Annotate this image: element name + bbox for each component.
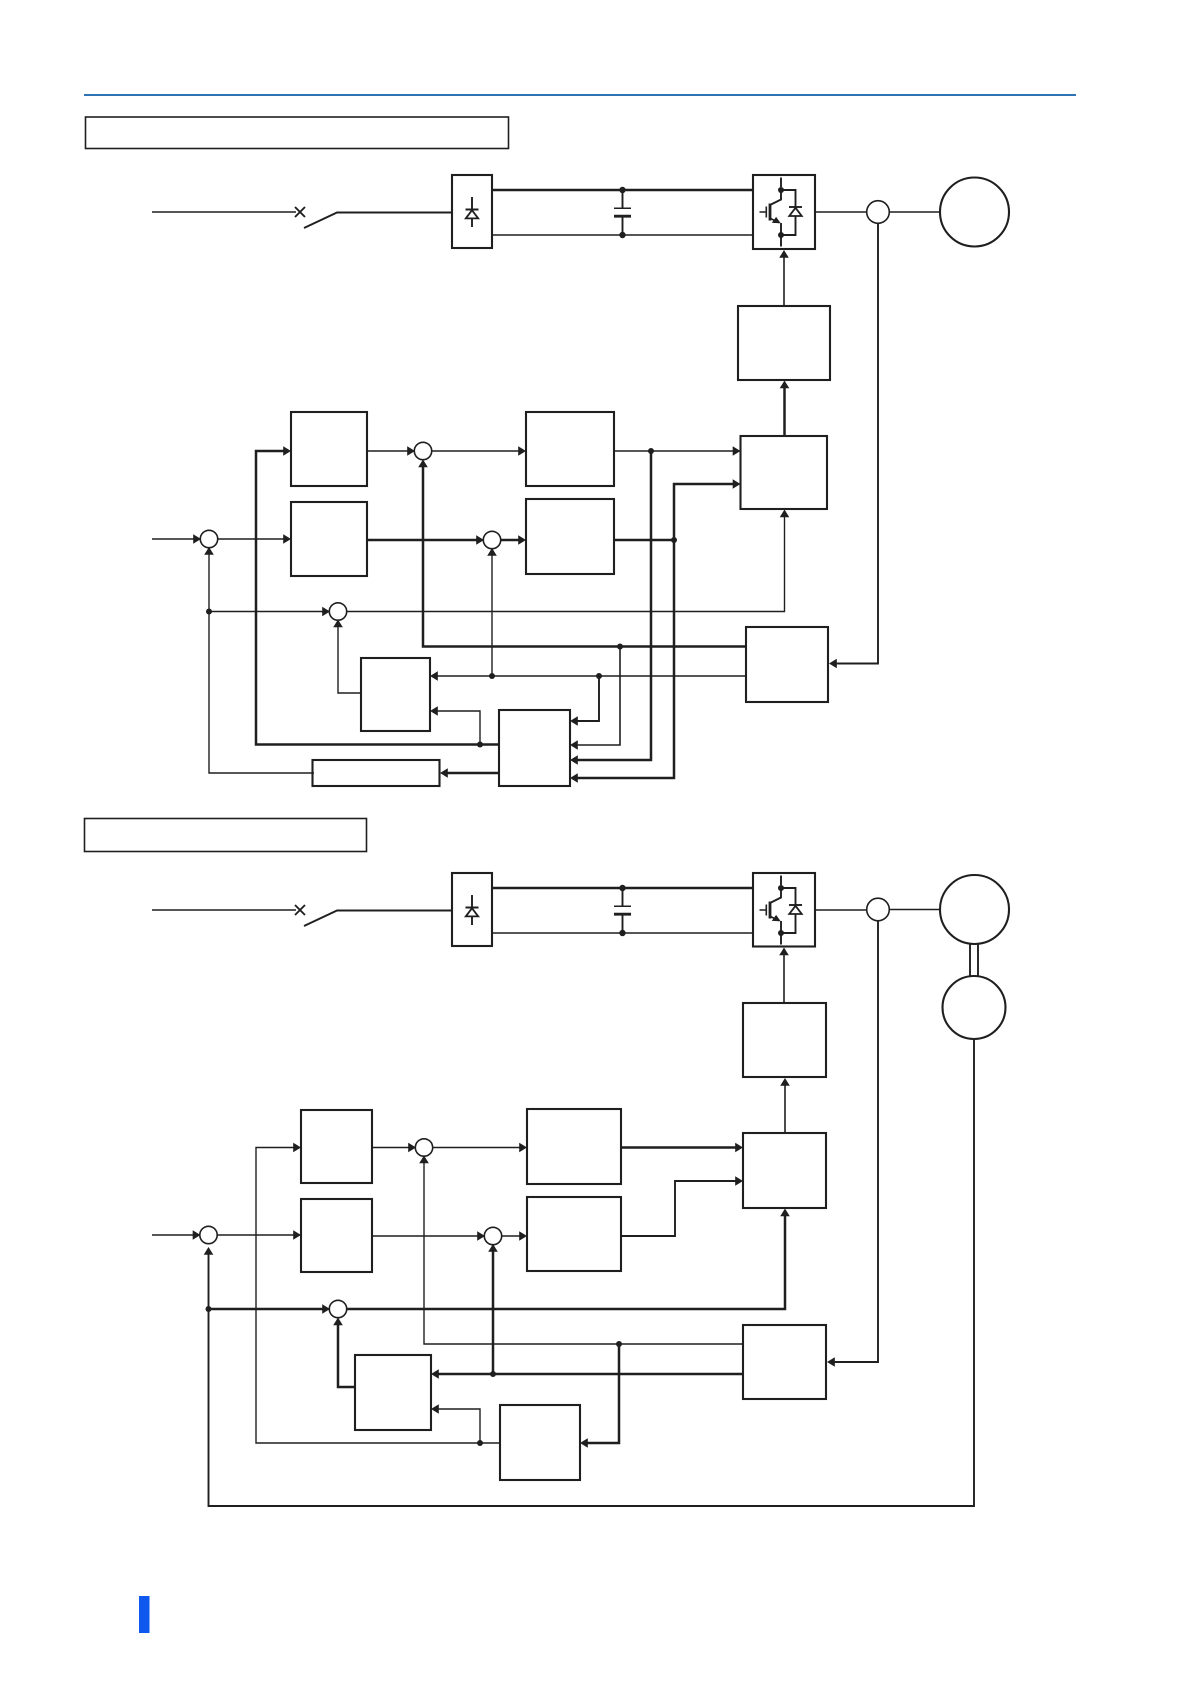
wire E to PWM 1 <box>783 385 786 436</box>
block C2 q-axis current controller <box>527 1109 621 1184</box>
block F2 flux estimator <box>355 1355 431 1430</box>
block PWM gate drive 2 <box>743 1003 826 1077</box>
wire H1 to S1a <box>209 551 314 773</box>
block F1 flux estimator <box>361 658 430 731</box>
node cap top 1 <box>619 187 625 193</box>
wire A1 to S1b <box>367 450 411 452</box>
wire I2 out1 to S2b <box>424 1160 743 1345</box>
wire F2 to S2d <box>338 1321 355 1387</box>
wire S1c to D1 <box>500 539 522 542</box>
wire speed reference 1 <box>152 538 197 540</box>
block H1 slip compensation <box>313 760 440 786</box>
block C1 q-axis current controller <box>526 412 614 486</box>
wire DC bus minus 2 <box>492 932 753 934</box>
block A2 torque controller <box>301 1110 372 1183</box>
wire supply input 2 <box>152 909 296 911</box>
summing junction S1d <box>329 603 346 620</box>
header rule <box>84 94 1076 96</box>
wire branch to S2d <box>209 1308 327 1311</box>
wire E to PWM 2 <box>784 1082 786 1133</box>
wire A2 to S2b <box>372 1147 412 1149</box>
node cap bottom 2 <box>619 930 625 936</box>
inverter IGBT Q1 <box>760 178 785 247</box>
node I2 out2 tap <box>490 1371 496 1377</box>
capacitor C2 <box>614 888 631 933</box>
breaker switch SW1 <box>304 213 452 229</box>
wire G1 to H1 <box>444 772 499 775</box>
wire C1 to E1 <box>614 450 737 452</box>
block I2 current detector <box>743 1325 826 1399</box>
wire branch to S1d <box>209 611 326 613</box>
breaker switch SW2 <box>304 911 452 927</box>
wire tap to F1 in2 <box>434 711 480 745</box>
node cap top 2 <box>619 885 625 891</box>
node G1 feedback tap <box>477 742 483 748</box>
wire gate drive to inverter 1 <box>783 254 785 306</box>
wire sensor feedback 2 <box>830 921 878 1362</box>
title box 1 <box>86 117 509 149</box>
wire tap to S2c <box>492 1248 495 1374</box>
breaker contact X1 <box>295 207 305 217</box>
block D1 d-axis current controller <box>526 499 614 574</box>
wire inverter output 2 <box>815 909 867 911</box>
node I1 out2 tap b <box>489 673 495 679</box>
wire I1 out1 to S1b <box>423 463 746 647</box>
node I2 out1 tap <box>616 1341 622 1347</box>
wire DC bus minus 1 <box>492 234 753 236</box>
wire D1 tap to G1 <box>574 540 674 778</box>
shaft coupling <box>970 944 978 976</box>
wire S1b to C1 <box>431 450 522 452</box>
node D1 out tap <box>671 537 677 543</box>
breaker contact X2 <box>295 905 305 915</box>
wire tap to G1 in1 <box>574 676 599 721</box>
block I1 current detector <box>746 627 828 702</box>
wire S2c to D2 <box>501 1235 523 1237</box>
wire F1 to S1d <box>338 623 361 693</box>
wire tap to G2 <box>584 1344 619 1443</box>
node I1 out2 tap a <box>596 673 602 679</box>
wire C1 tap to G1 <box>574 451 651 760</box>
inverter diode DF1 <box>781 190 802 235</box>
wire S2a to B2 <box>217 1234 298 1236</box>
wire speed reference 2 <box>152 1234 197 1236</box>
current sensor CT1 <box>867 201 890 224</box>
rectifier diode D2 <box>466 895 479 925</box>
wire D1 to E1 <box>674 484 737 540</box>
wire D2 to E2 <box>621 1181 739 1236</box>
wire G1 feedback to A1 <box>256 451 499 745</box>
block PWM gate drive 1 <box>738 306 830 380</box>
encoder PG <box>943 976 1006 1039</box>
wire S2b to C2 <box>432 1147 523 1149</box>
node G2 feedback tap <box>477 1440 483 1446</box>
wire C2 to E2 <box>621 1146 739 1149</box>
block voltage command 2 <box>743 1133 826 1208</box>
motor M1 <box>940 178 1009 247</box>
wire I2 out2 to F2 <box>435 1373 743 1376</box>
block D2 d-axis current controller <box>527 1197 621 1271</box>
block voltage command 1 <box>741 436 828 509</box>
wire S1d to E1 bottom <box>346 513 785 612</box>
node S1a branch <box>206 609 212 615</box>
wire sensor to motor 2 <box>889 909 940 911</box>
wire DC bus plus 2 <box>492 887 753 890</box>
wire sensor to motor 1 <box>889 211 940 213</box>
wire tap to F2 in2 <box>435 1409 480 1443</box>
summing junction S1c <box>483 531 500 548</box>
wire S2d to E2 bottom <box>346 1213 785 1310</box>
block A1 torque controller <box>291 412 367 486</box>
node I1 out1 tap <box>617 644 623 650</box>
wire G2 feedback to A2 <box>256 1148 500 1444</box>
wire B2 to S2c <box>372 1235 481 1237</box>
summing junction S2d <box>329 1300 346 1317</box>
inverter box 1 <box>753 175 815 249</box>
summing junction S2a <box>200 1226 217 1243</box>
wire S1a to B1 <box>217 538 287 540</box>
title box 2 <box>85 819 367 852</box>
block G2 motor model <box>500 1405 580 1480</box>
wire sensor feedback 1 <box>832 223 878 663</box>
wire encoder feedback <box>209 1039 975 1506</box>
wire supply input 1 <box>152 211 296 213</box>
wire I1 out2 to F1 <box>434 675 746 677</box>
node cap bottom 1 <box>619 232 625 238</box>
summing junction S2b <box>415 1139 432 1156</box>
current sensor CT2 <box>867 898 890 921</box>
rectifier box 1 <box>452 175 492 248</box>
motor M2 <box>940 875 1009 944</box>
rectifier diode D1 <box>466 197 479 227</box>
block B2 speed controller <box>301 1199 372 1272</box>
capacitor C1 <box>614 190 631 235</box>
node S2a branch <box>206 1306 212 1312</box>
inverter box 2 <box>753 873 815 947</box>
wire I1 out2 to S1c <box>491 552 493 676</box>
wire gate drive to inverter 2 <box>783 952 785 1004</box>
wire DC bus plus 1 <box>492 189 753 192</box>
rectifier box 2 <box>452 873 492 946</box>
node C1 out tap <box>648 448 654 454</box>
block G1 motor model <box>499 710 570 786</box>
summing junction S1b <box>414 442 431 459</box>
wire inverter output 1 <box>815 211 867 213</box>
wire B1 to S1c <box>367 539 480 542</box>
block B1 speed controller <box>291 502 367 576</box>
inverter diode DF2 <box>781 888 802 933</box>
summing junction S2c <box>484 1227 501 1244</box>
wire G1 to feedback line <box>574 647 620 746</box>
page marker <box>139 1596 150 1633</box>
summing junction S1a <box>200 530 217 547</box>
inverter IGBT Q2 <box>760 876 785 945</box>
wire D1 out <box>614 539 674 542</box>
